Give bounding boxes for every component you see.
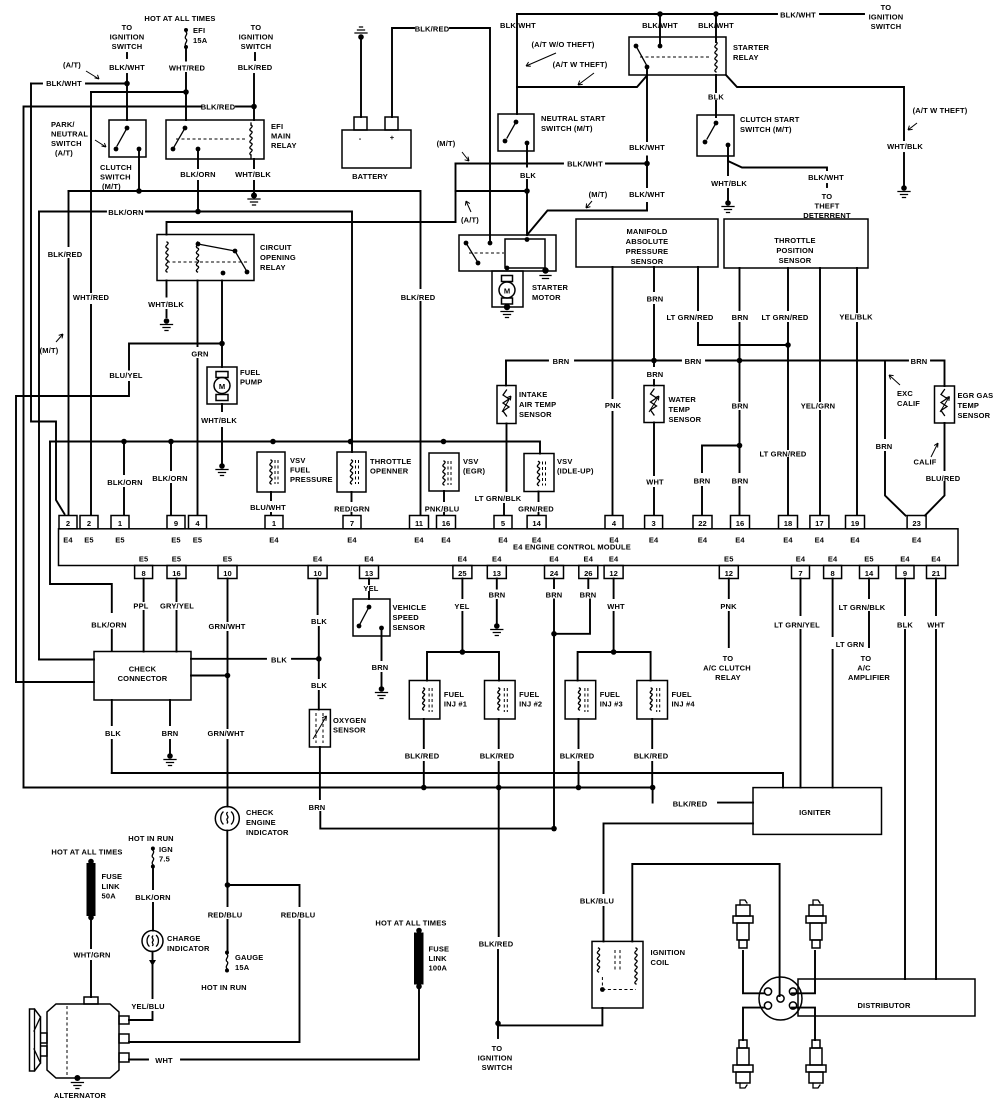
svg-text:TO: TO bbox=[251, 23, 262, 32]
svg-text:CLUTCH START: CLUTCH START bbox=[740, 115, 800, 124]
svg-text:INJ #2: INJ #2 bbox=[519, 700, 542, 709]
svg-text:HOT AT ALL TIMES: HOT AT ALL TIMES bbox=[51, 848, 122, 857]
svg-text:9: 9 bbox=[903, 569, 907, 578]
svg-text:OPENNER: OPENNER bbox=[370, 467, 409, 476]
svg-text:19: 19 bbox=[851, 519, 859, 528]
svg-text:BRN: BRN bbox=[732, 402, 749, 411]
svg-text:STARTER: STARTER bbox=[532, 283, 569, 292]
svg-text:16: 16 bbox=[736, 519, 744, 528]
svg-text:FUSE: FUSE bbox=[102, 872, 123, 881]
svg-text:WHT/BLK: WHT/BLK bbox=[235, 170, 271, 179]
svg-text:ENGINE: ENGINE bbox=[246, 818, 276, 827]
svg-text:BRN: BRN bbox=[911, 357, 928, 366]
svg-text:BRN: BRN bbox=[647, 370, 664, 379]
svg-text:INJ #1: INJ #1 bbox=[444, 700, 467, 709]
svg-text:E4: E4 bbox=[783, 536, 793, 545]
svg-text:E5: E5 bbox=[223, 554, 233, 563]
svg-text:STARTER: STARTER bbox=[733, 43, 770, 52]
svg-text:7: 7 bbox=[350, 519, 354, 528]
svg-text:E5: E5 bbox=[84, 536, 94, 545]
svg-text:BLK/RED: BLK/RED bbox=[673, 800, 708, 809]
svg-text:BRN: BRN bbox=[372, 663, 389, 672]
svg-text:BLU/YEL: BLU/YEL bbox=[109, 371, 143, 380]
svg-text:FUEL: FUEL bbox=[600, 690, 621, 699]
svg-text:E4: E4 bbox=[313, 554, 323, 563]
svg-text:RELAY: RELAY bbox=[733, 53, 759, 62]
svg-text:7: 7 bbox=[798, 569, 802, 578]
svg-text:GRN/WHT: GRN/WHT bbox=[208, 622, 245, 631]
svg-text:E4: E4 bbox=[458, 554, 468, 563]
svg-text:TO: TO bbox=[492, 1044, 503, 1053]
svg-text:FUEL: FUEL bbox=[672, 690, 693, 699]
svg-text:SENSOR: SENSOR bbox=[393, 623, 426, 632]
svg-text:E4: E4 bbox=[414, 536, 424, 545]
svg-text:TO: TO bbox=[723, 654, 734, 663]
svg-text:12: 12 bbox=[725, 569, 733, 578]
svg-text:EGR GAS: EGR GAS bbox=[958, 391, 994, 400]
svg-text:WHT: WHT bbox=[155, 1056, 173, 1065]
svg-text:YEL/GRN: YEL/GRN bbox=[801, 402, 836, 411]
svg-text:E5: E5 bbox=[115, 536, 125, 545]
svg-text:12: 12 bbox=[609, 569, 617, 578]
svg-text:A/C: A/C bbox=[857, 664, 871, 673]
svg-text:YEL/BLU: YEL/BLU bbox=[131, 1002, 164, 1011]
svg-text:VEHICLE: VEHICLE bbox=[393, 603, 427, 612]
svg-text:FUSE: FUSE bbox=[429, 945, 450, 954]
svg-text:BLK: BLK bbox=[708, 93, 724, 102]
svg-text:(A/T): (A/T) bbox=[461, 216, 479, 225]
svg-text:BLK/RED: BLK/RED bbox=[201, 103, 236, 112]
svg-text:BLK/WHT: BLK/WHT bbox=[629, 190, 665, 199]
svg-text:INTAKE: INTAKE bbox=[519, 390, 547, 399]
svg-text:BRN: BRN bbox=[553, 357, 570, 366]
svg-text:EXC: EXC bbox=[897, 389, 913, 398]
svg-text:9: 9 bbox=[174, 519, 178, 528]
svg-text:(M/T): (M/T) bbox=[40, 346, 59, 355]
svg-text:8: 8 bbox=[141, 569, 145, 578]
svg-text:EFI: EFI bbox=[193, 26, 205, 35]
svg-text:17: 17 bbox=[815, 519, 823, 528]
svg-text:SWITCH (M/T): SWITCH (M/T) bbox=[740, 125, 792, 134]
svg-text:(M/T): (M/T) bbox=[589, 190, 608, 199]
svg-text:FUEL: FUEL bbox=[444, 690, 465, 699]
svg-text:BLU/RED: BLU/RED bbox=[926, 474, 961, 483]
svg-text:(M/T): (M/T) bbox=[102, 182, 121, 191]
svg-text:PRESSURE: PRESSURE bbox=[290, 475, 333, 484]
svg-text:CALIF: CALIF bbox=[914, 458, 937, 467]
svg-text:IGNITION: IGNITION bbox=[478, 1054, 513, 1063]
svg-text:LT GRN/BLK: LT GRN/BLK bbox=[839, 603, 886, 612]
svg-text:BLK/WHT: BLK/WHT bbox=[629, 143, 665, 152]
svg-text:E4: E4 bbox=[347, 536, 357, 545]
svg-text:22: 22 bbox=[698, 519, 706, 528]
svg-text:BLK: BLK bbox=[311, 681, 327, 690]
svg-text:AMPLIFIER: AMPLIFIER bbox=[848, 673, 890, 682]
svg-text:RED/GRN: RED/GRN bbox=[334, 505, 370, 514]
svg-text:BLK/RED: BLK/RED bbox=[401, 293, 436, 302]
svg-text:BRN: BRN bbox=[162, 729, 179, 738]
svg-text:BLK: BLK bbox=[311, 617, 327, 626]
svg-text:BLK: BLK bbox=[520, 171, 536, 180]
svg-text:E4: E4 bbox=[850, 536, 860, 545]
svg-text:25: 25 bbox=[458, 569, 467, 578]
svg-text:SWITCH: SWITCH bbox=[871, 22, 902, 31]
svg-text:BLK/RED: BLK/RED bbox=[634, 752, 669, 761]
svg-text:BLK: BLK bbox=[271, 655, 287, 664]
svg-text:E4: E4 bbox=[931, 554, 941, 563]
svg-text:BLK/WHT: BLK/WHT bbox=[46, 79, 82, 88]
svg-text:THROTTLE: THROTTLE bbox=[370, 457, 411, 466]
svg-text:E5: E5 bbox=[172, 554, 182, 563]
svg-text:BLK/RED: BLK/RED bbox=[480, 752, 515, 761]
svg-text:LT GRN: LT GRN bbox=[836, 640, 864, 649]
svg-text:CLUTCH: CLUTCH bbox=[100, 163, 132, 172]
svg-text:E4: E4 bbox=[364, 554, 374, 563]
svg-text:BLK/WHT: BLK/WHT bbox=[567, 160, 603, 169]
svg-text:PARK/: PARK/ bbox=[51, 120, 75, 129]
svg-text:SENSOR: SENSOR bbox=[958, 411, 991, 420]
svg-text:BRN: BRN bbox=[309, 803, 326, 812]
svg-text:E4: E4 bbox=[269, 536, 279, 545]
svg-text:BLU/WHT: BLU/WHT bbox=[250, 503, 286, 512]
svg-text:M: M bbox=[504, 287, 510, 296]
svg-text:SWITCH: SWITCH bbox=[100, 173, 131, 182]
svg-text:E4: E4 bbox=[609, 554, 619, 563]
svg-text:SENSOR: SENSOR bbox=[779, 256, 812, 265]
svg-text:FUEL: FUEL bbox=[290, 466, 311, 475]
svg-text:GRN/WHT: GRN/WHT bbox=[207, 729, 244, 738]
svg-text:TO: TO bbox=[122, 23, 133, 32]
svg-text:MANIFOLD: MANIFOLD bbox=[626, 227, 667, 236]
svg-text:HOT IN RUN: HOT IN RUN bbox=[201, 983, 247, 992]
svg-text:E4: E4 bbox=[828, 554, 838, 563]
svg-text:50A: 50A bbox=[102, 892, 117, 901]
svg-text:BLK/RED: BLK/RED bbox=[479, 940, 514, 949]
svg-text:HOT AT ALL TIMES: HOT AT ALL TIMES bbox=[375, 919, 446, 928]
svg-text:SPEED: SPEED bbox=[393, 613, 420, 622]
svg-text:BLK/RED: BLK/RED bbox=[238, 63, 273, 72]
svg-text:100A: 100A bbox=[429, 964, 448, 973]
svg-text:RED/BLU: RED/BLU bbox=[281, 911, 316, 920]
svg-text:E4: E4 bbox=[900, 554, 910, 563]
svg-text:RELAY: RELAY bbox=[715, 673, 741, 682]
svg-text:(A/T W THEFT): (A/T W THEFT) bbox=[913, 106, 968, 115]
svg-text:INDICATOR: INDICATOR bbox=[246, 828, 289, 837]
svg-text:E4: E4 bbox=[584, 554, 594, 563]
svg-text:LT GRN/BLK: LT GRN/BLK bbox=[475, 494, 522, 503]
svg-text:SWITCH: SWITCH bbox=[241, 42, 272, 51]
svg-text:SENSOR: SENSOR bbox=[333, 726, 366, 735]
svg-text:INDICATOR: INDICATOR bbox=[167, 944, 210, 953]
svg-text:BLK/ORN: BLK/ORN bbox=[152, 474, 187, 483]
svg-text:WHT/RED: WHT/RED bbox=[169, 64, 206, 73]
svg-text:11: 11 bbox=[415, 519, 424, 528]
svg-text:BRN: BRN bbox=[732, 313, 749, 322]
svg-text:E4: E4 bbox=[549, 554, 559, 563]
svg-text:HOT AT ALL TIMES: HOT AT ALL TIMES bbox=[144, 14, 215, 23]
svg-text:WHT/GRN: WHT/GRN bbox=[73, 951, 110, 960]
svg-text:E4: E4 bbox=[735, 536, 745, 545]
svg-text:INJ #4: INJ #4 bbox=[672, 700, 696, 709]
svg-text:23: 23 bbox=[912, 519, 920, 528]
svg-text:BLK/ORN: BLK/ORN bbox=[180, 170, 215, 179]
svg-text:OPENING: OPENING bbox=[260, 253, 296, 262]
svg-text:GRN/RED: GRN/RED bbox=[518, 505, 554, 514]
svg-text:LT GRN/YEL: LT GRN/YEL bbox=[774, 621, 820, 630]
svg-text:BRN: BRN bbox=[876, 442, 893, 451]
svg-text:YEL: YEL bbox=[454, 602, 469, 611]
svg-text:TO: TO bbox=[881, 3, 892, 12]
svg-text:21: 21 bbox=[932, 569, 941, 578]
svg-text:LINK: LINK bbox=[102, 882, 121, 891]
svg-text:GAUGE: GAUGE bbox=[235, 953, 263, 962]
svg-text:AIR TEMP: AIR TEMP bbox=[519, 400, 556, 409]
svg-text:ALTERNATOR: ALTERNATOR bbox=[54, 1091, 107, 1100]
svg-text:IGN: IGN bbox=[159, 845, 173, 854]
svg-text:LT GRN/RED: LT GRN/RED bbox=[761, 313, 808, 322]
svg-text:THEFT: THEFT bbox=[814, 202, 839, 211]
svg-text:IGNITION: IGNITION bbox=[110, 33, 145, 42]
svg-text:IGNITION: IGNITION bbox=[869, 13, 904, 22]
svg-text:E4: E4 bbox=[441, 536, 451, 545]
svg-text:GRY/YEL: GRY/YEL bbox=[160, 602, 194, 611]
svg-text:WHT/BLK: WHT/BLK bbox=[887, 142, 923, 151]
svg-text:WHT: WHT bbox=[646, 478, 664, 487]
svg-text:LT GRN/RED: LT GRN/RED bbox=[666, 313, 713, 322]
svg-text:(IDLE-UP): (IDLE-UP) bbox=[557, 467, 594, 476]
svg-text:MAIN: MAIN bbox=[271, 132, 291, 141]
svg-text:PNK: PNK bbox=[720, 602, 737, 611]
svg-text:BATTERY: BATTERY bbox=[352, 172, 388, 181]
svg-text:FUEL: FUEL bbox=[519, 690, 540, 699]
svg-text:BRN: BRN bbox=[732, 477, 749, 486]
svg-text:IGNITION: IGNITION bbox=[651, 948, 686, 957]
svg-text:WHT/BLK: WHT/BLK bbox=[148, 300, 184, 309]
svg-text:CONNECTOR: CONNECTOR bbox=[118, 674, 168, 683]
svg-text:CHARGE: CHARGE bbox=[167, 934, 201, 943]
svg-text:GRN: GRN bbox=[191, 350, 208, 359]
svg-text:16: 16 bbox=[442, 519, 450, 528]
svg-text:(M/T): (M/T) bbox=[437, 139, 456, 148]
svg-text:E4: E4 bbox=[498, 536, 508, 545]
svg-text:VSV: VSV bbox=[463, 457, 479, 466]
svg-text:TEMP: TEMP bbox=[669, 405, 691, 414]
svg-text:WHT/BLK: WHT/BLK bbox=[201, 416, 237, 425]
svg-text:WHT/BLK: WHT/BLK bbox=[711, 179, 747, 188]
svg-text:E4: E4 bbox=[796, 554, 806, 563]
svg-text:E5: E5 bbox=[193, 536, 203, 545]
svg-text:WHT: WHT bbox=[927, 621, 945, 630]
svg-text:HOT IN RUN: HOT IN RUN bbox=[128, 834, 174, 843]
svg-text:10: 10 bbox=[313, 569, 321, 578]
svg-text:TO: TO bbox=[861, 654, 872, 663]
svg-text:8: 8 bbox=[830, 569, 834, 578]
svg-text:BLK/RED: BLK/RED bbox=[560, 752, 595, 761]
svg-text:(A/T W THEFT): (A/T W THEFT) bbox=[553, 60, 608, 69]
svg-text:14: 14 bbox=[532, 519, 541, 528]
svg-text:POSITION: POSITION bbox=[776, 246, 813, 255]
svg-text:BRN: BRN bbox=[489, 591, 506, 600]
svg-text:3: 3 bbox=[651, 519, 655, 528]
svg-text:BRN: BRN bbox=[580, 591, 597, 600]
svg-text:2: 2 bbox=[66, 519, 70, 528]
svg-text:24: 24 bbox=[550, 569, 559, 578]
svg-text:SWITCH: SWITCH bbox=[51, 139, 82, 148]
svg-text:INJ #3: INJ #3 bbox=[600, 700, 623, 709]
svg-text:E4: E4 bbox=[698, 536, 708, 545]
svg-text:CHECK: CHECK bbox=[129, 665, 157, 674]
svg-text:+: + bbox=[390, 133, 395, 142]
svg-text:M: M bbox=[219, 382, 225, 391]
svg-text:PNK/BLU: PNK/BLU bbox=[425, 505, 460, 514]
svg-text:15A: 15A bbox=[193, 36, 208, 45]
svg-text:E4: E4 bbox=[532, 536, 542, 545]
svg-text:BLK/RED: BLK/RED bbox=[415, 25, 450, 34]
svg-text:ABSOLUTE: ABSOLUTE bbox=[626, 237, 669, 246]
svg-text:BLK/BLU: BLK/BLU bbox=[580, 897, 614, 906]
svg-text:TEMP: TEMP bbox=[958, 401, 980, 410]
svg-text:A/C CLUTCH: A/C CLUTCH bbox=[703, 664, 751, 673]
svg-text:YEL/BLK: YEL/BLK bbox=[839, 313, 873, 322]
svg-text:CIRCUIT: CIRCUIT bbox=[260, 243, 292, 252]
svg-text:SWITCH (M/T): SWITCH (M/T) bbox=[541, 124, 593, 133]
svg-text:VSV: VSV bbox=[557, 457, 573, 466]
svg-text:RELAY: RELAY bbox=[271, 141, 297, 150]
svg-text:SENSOR: SENSOR bbox=[669, 415, 702, 424]
svg-text:BRN: BRN bbox=[685, 357, 702, 366]
svg-text:NEUTRAL START: NEUTRAL START bbox=[541, 114, 606, 123]
svg-text:E5: E5 bbox=[139, 554, 149, 563]
svg-text:E5: E5 bbox=[171, 536, 181, 545]
svg-text:BLK/WHT: BLK/WHT bbox=[808, 173, 844, 182]
svg-text:16: 16 bbox=[172, 569, 180, 578]
svg-text:15A: 15A bbox=[235, 963, 250, 972]
svg-text:BLK/ORN: BLK/ORN bbox=[135, 893, 170, 902]
svg-text:SWITCH: SWITCH bbox=[112, 42, 143, 51]
svg-text:13: 13 bbox=[365, 569, 373, 578]
svg-text:BLK/ORN: BLK/ORN bbox=[107, 478, 142, 487]
svg-text:THROTTLE: THROTTLE bbox=[774, 236, 815, 245]
svg-text:LINK: LINK bbox=[429, 954, 448, 963]
svg-text:IGNITION: IGNITION bbox=[239, 33, 274, 42]
svg-text:18: 18 bbox=[784, 519, 792, 528]
svg-text:E4: E4 bbox=[609, 536, 619, 545]
svg-text:14: 14 bbox=[865, 569, 874, 578]
svg-text:WHT/RED: WHT/RED bbox=[73, 293, 110, 302]
svg-text:SENSOR: SENSOR bbox=[631, 257, 664, 266]
svg-text:WATER: WATER bbox=[669, 395, 697, 404]
svg-text:YEL: YEL bbox=[363, 584, 378, 593]
svg-text:26: 26 bbox=[584, 569, 592, 578]
svg-text:PNK: PNK bbox=[605, 401, 622, 410]
svg-text:OXYGEN: OXYGEN bbox=[333, 716, 366, 725]
svg-text:IGNITER: IGNITER bbox=[799, 808, 831, 817]
svg-text:BLK/RED: BLK/RED bbox=[48, 250, 83, 259]
svg-text:(A/T): (A/T) bbox=[63, 61, 81, 70]
svg-text:COIL: COIL bbox=[651, 958, 670, 967]
svg-text:BLK/ORN: BLK/ORN bbox=[91, 621, 126, 630]
svg-text:BLK/ORN: BLK/ORN bbox=[108, 208, 143, 217]
svg-text:BRN: BRN bbox=[694, 477, 711, 486]
svg-text:BLK/RED: BLK/RED bbox=[405, 752, 440, 761]
svg-text:E5: E5 bbox=[864, 554, 874, 563]
svg-text:SWITCH: SWITCH bbox=[482, 1063, 513, 1072]
svg-text:10: 10 bbox=[223, 569, 231, 578]
svg-text:FUEL: FUEL bbox=[240, 368, 261, 377]
svg-text:VSV: VSV bbox=[290, 456, 306, 465]
svg-text:E4: E4 bbox=[63, 536, 73, 545]
svg-text:E4: E4 bbox=[815, 536, 825, 545]
svg-text:MOTOR: MOTOR bbox=[532, 293, 561, 302]
svg-text:BLK/WHT: BLK/WHT bbox=[780, 11, 816, 20]
svg-text:RED/BLU: RED/BLU bbox=[208, 911, 243, 920]
svg-text:13: 13 bbox=[493, 569, 501, 578]
svg-text:(A/T): (A/T) bbox=[55, 149, 73, 158]
svg-text:2: 2 bbox=[87, 519, 91, 528]
svg-text:PUMP: PUMP bbox=[240, 378, 262, 387]
svg-text:WHT: WHT bbox=[607, 602, 625, 611]
svg-text:BLK/WHT: BLK/WHT bbox=[109, 63, 145, 72]
svg-text:(A/T W/O THEFT): (A/T W/O THEFT) bbox=[531, 40, 594, 49]
svg-text:TO: TO bbox=[822, 192, 833, 201]
svg-text:LT GRN/RED: LT GRN/RED bbox=[759, 450, 806, 459]
svg-text:NEUTRAL: NEUTRAL bbox=[51, 130, 88, 139]
svg-text:BLK/WHT: BLK/WHT bbox=[500, 21, 536, 30]
svg-text:BRN: BRN bbox=[647, 295, 664, 304]
svg-text:DISTRIBUTOR: DISTRIBUTOR bbox=[857, 1001, 910, 1010]
svg-text:PRESSURE: PRESSURE bbox=[626, 247, 669, 256]
svg-text:CHECK: CHECK bbox=[246, 808, 274, 817]
svg-text:SENSOR: SENSOR bbox=[519, 410, 552, 419]
svg-text:EFI: EFI bbox=[271, 122, 283, 131]
svg-text:BLK: BLK bbox=[105, 729, 121, 738]
svg-text:E5: E5 bbox=[724, 554, 734, 563]
svg-text:CALIF: CALIF bbox=[897, 399, 920, 408]
svg-text:BLK: BLK bbox=[897, 621, 913, 630]
svg-text:7.5: 7.5 bbox=[159, 855, 170, 864]
svg-text:(EGR): (EGR) bbox=[463, 467, 485, 476]
svg-text:E4: E4 bbox=[649, 536, 659, 545]
svg-text:PPL: PPL bbox=[133, 602, 148, 611]
svg-text:RELAY: RELAY bbox=[260, 263, 286, 272]
svg-text:E4: E4 bbox=[912, 536, 922, 545]
svg-text:BRN: BRN bbox=[546, 591, 563, 600]
svg-text:E4: E4 bbox=[492, 554, 502, 563]
